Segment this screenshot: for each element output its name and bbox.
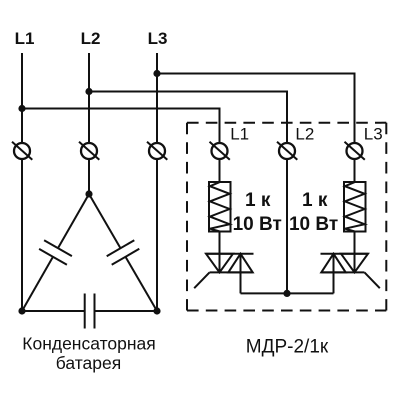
fuse FU1 (line L1)	[12, 142, 32, 160]
svg-text:L1: L1	[230, 125, 249, 144]
wire module L1 fuse to resistor	[219, 159, 221, 182]
wire L1 vertical feed	[21, 53, 23, 143]
module dashed enclosure	[187, 123, 386, 311]
wire resistor R1 to triac VS1	[219, 232, 221, 273]
resistor R1	[209, 182, 231, 232]
wire L2 branch to module	[89, 92, 287, 144]
svg-text:L3: L3	[364, 125, 383, 144]
fuse FU5 (module L2)	[277, 142, 297, 160]
wire module L2 line down	[286, 159, 288, 293]
node delta apex junction	[85, 190, 92, 197]
wire L2 down to delta apex	[88, 159, 90, 194]
svg-text:L2: L2	[81, 29, 101, 48]
wire triac common bottom	[241, 292, 334, 294]
wire delta right side lower	[126, 257, 158, 311]
svg-text:МДР-2/1к: МДР-2/1к	[246, 337, 329, 358]
fuse FU4 (module L1)	[210, 142, 230, 160]
triac VS2	[321, 254, 380, 289]
svg-text:Конденсаторная: Конденсаторная	[22, 333, 155, 353]
wire delta bottom left segment	[22, 310, 85, 312]
svg-text:10 Вт: 10 Вт	[289, 214, 338, 235]
wire delta left side lower	[22, 257, 53, 311]
svg-text:батарея: батарея	[56, 353, 121, 373]
node junction L2 branch	[85, 88, 92, 95]
capacitor C3 (bottom plates)	[85, 294, 95, 329]
wire resistor R2 to triac VS2	[354, 232, 356, 273]
fuse FU2 (line L2)	[79, 142, 99, 160]
fuse FU3 (line L3)	[147, 142, 167, 160]
svg-text:1 к: 1 к	[245, 190, 271, 211]
svg-text:L2: L2	[295, 125, 314, 144]
wire delta right side upper	[89, 194, 121, 248]
wire triac VS1 output	[240, 254, 242, 294]
node delta bottom-left junction	[18, 307, 25, 314]
wire L3 vertical feed	[156, 53, 158, 143]
node module bottom junction	[283, 290, 290, 297]
capacitor C1 (left side plates)	[39, 240, 72, 265]
wire L1 branch to module	[22, 109, 220, 144]
svg-text:10 Вт: 10 Вт	[233, 214, 282, 235]
wire triac VS2 output	[333, 254, 335, 294]
wire module L3 fuse to resistor	[354, 159, 356, 182]
resistor R2	[344, 182, 366, 232]
fuse FU6 (module L3)	[345, 142, 365, 160]
wire L1 down to capacitor bank	[21, 159, 23, 311]
wire delta left side upper	[58, 194, 89, 248]
svg-text:L3: L3	[148, 29, 168, 48]
node delta bottom-right junction	[153, 307, 160, 314]
svg-text:1 к: 1 к	[302, 190, 328, 211]
wire delta bottom right segment	[95, 310, 158, 312]
wire L3 branch to module	[157, 74, 355, 144]
wire L3 down to capacitor bank	[156, 159, 158, 311]
svg-text:L1: L1	[15, 29, 35, 48]
capacitor C2 (right side plates)	[107, 240, 140, 265]
node junction L3 branch	[153, 70, 160, 77]
wire L2 vertical feed	[88, 53, 90, 143]
triac VS1	[194, 254, 253, 289]
node junction L1 branch	[18, 105, 25, 112]
